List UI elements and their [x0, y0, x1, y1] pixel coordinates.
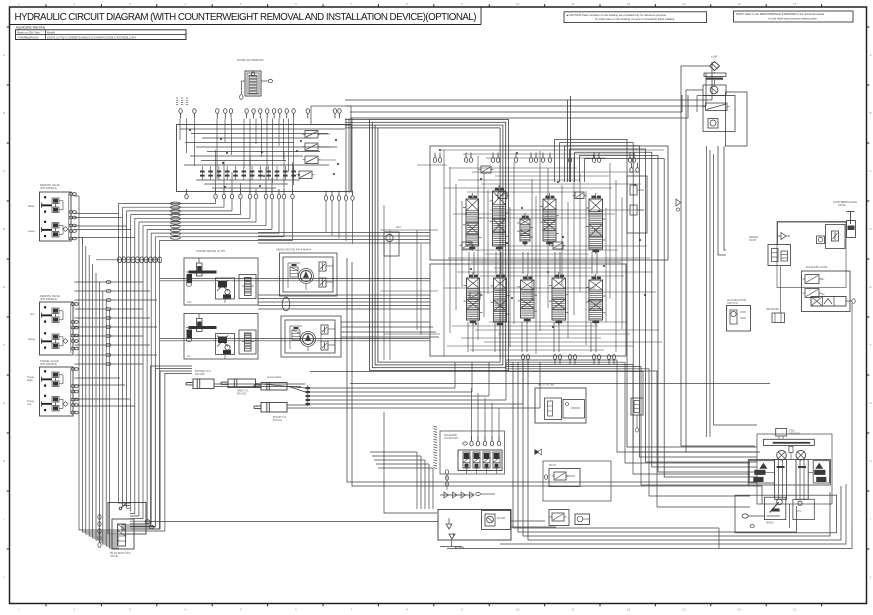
counterweight device label box — [776, 429, 801, 440]
main valve internal piping mesh — [380, 149, 664, 360]
svg-text:VALVE: VALVE — [110, 555, 118, 558]
svg-text:A-L: A-L — [187, 355, 192, 358]
svg-text:I: I — [870, 517, 871, 521]
cw center link — [789, 446, 793, 459]
svg-text:▮ TANK: ▮ TANK — [455, 546, 465, 550]
cw cyl box right — [793, 499, 814, 519]
cooler control valve box — [703, 96, 735, 132]
svg-text:P/N 222: P/N 222 — [237, 392, 247, 396]
long return line B — [350, 383, 770, 385]
svg-text:7: 7 — [351, 2, 353, 6]
pilot manifold ports column — [98, 515, 101, 548]
lower right bus lines — [500, 484, 846, 544]
svg-text:8: 8 — [406, 608, 408, 612]
counterweight control valve box — [826, 222, 847, 249]
svg-text:4: 4 — [184, 2, 186, 6]
svg-text:PILOT FILTER: PILOT FILTER — [538, 384, 554, 387]
svg-text:C: C — [869, 169, 872, 173]
svg-text:To order parts on the drawing,: To order parts on the drawing, be sure t… — [595, 17, 675, 21]
nested frame top right — [568, 96, 571, 182]
pilot filter in tank — [482, 511, 511, 530]
svg-text:10: 10 — [516, 2, 520, 6]
svg-text:F: F — [3, 343, 5, 347]
svg-text:(P/N 4654323): (P/N 4654323) — [40, 362, 57, 366]
svg-text:G: G — [3, 401, 6, 405]
svg-text:SC: SC — [821, 278, 825, 281]
pilot control valve (arm/swing) — [28, 294, 78, 355]
hose exterior valve — [237, 58, 273, 99]
tank drain line — [440, 540, 465, 550]
svg-text:VALVE UNIT: VALVE UNIT — [444, 437, 459, 440]
svg-text:JOINT: JOINT — [749, 239, 757, 242]
svg-text:VALVE: VALVE — [838, 204, 846, 207]
svg-text:C: C — [3, 169, 6, 173]
svg-text:12: 12 — [627, 608, 631, 612]
long return line A — [310, 372, 643, 399]
svg-text:for the relief valve pressure: for the relief valve pressure setting va… — [769, 16, 818, 20]
svg-text:14: 14 — [738, 2, 742, 6]
manifold top ports — [463, 388, 501, 446]
svg-text:11: 11 — [571, 608, 574, 612]
svg-text:Left: Left — [27, 403, 31, 406]
boom cylinder B — [254, 403, 287, 423]
junction box solenoid valves — [297, 131, 337, 179]
cw cylinder left — [775, 460, 787, 500]
svg-text:3: 3 — [129, 608, 131, 612]
air breather diamond — [710, 56, 720, 71]
svg-text:FILTER: FILTER — [497, 517, 505, 520]
counterweight device header bar — [764, 439, 815, 445]
main valve spools lower row — [464, 272, 606, 327]
svg-text:Swing: Swing — [28, 338, 35, 341]
cw cylinder right — [796, 460, 808, 500]
hose wrap marker band — [434, 426, 438, 469]
swing device unit B — [281, 316, 341, 357]
svg-text:1: 1 — [18, 608, 20, 612]
pilot hose bundle center-to-left-down — [118, 199, 292, 529]
svg-text:12: 12 — [627, 2, 631, 6]
svg-text:▲CAUTION: Parts numbers on the: ▲CAUTION: Parts numbers on the drawing a… — [566, 13, 667, 17]
bucket cylinder — [186, 369, 214, 389]
cw winch box — [765, 497, 786, 524]
staircase return bundle — [505, 360, 750, 507]
svg-text:5: 5 — [240, 2, 242, 6]
svg-text:7: 7 — [351, 608, 353, 612]
svg-text:3: 3 — [129, 2, 131, 6]
pilot shut-off lever valve box — [108, 503, 146, 559]
main valve bottom ports — [521, 355, 615, 365]
svg-text:Applicable Machine: Applicable Machine — [16, 26, 46, 30]
svg-text:P/N 333: P/N 333 — [195, 372, 205, 376]
svg-text:G: G — [869, 401, 872, 405]
note box — [734, 11, 854, 22]
svg-text:HOSE (EXTERIOR): HOSE (EXTERIOR) — [237, 58, 264, 62]
svg-text:D: D — [3, 227, 6, 231]
svg-text:Lower: Lower — [28, 230, 35, 233]
cw hand pump handle — [742, 514, 765, 528]
pump delivery verticals — [513, 362, 841, 549]
oil cooler top header — [704, 72, 726, 85]
caution note box — [564, 12, 707, 23]
svg-text:A: A — [3, 53, 5, 57]
vent dashes — [176, 98, 188, 105]
shuttle glyph right of manifold — [535, 449, 542, 455]
travel pilot valve unit B — [184, 314, 258, 360]
main return frame lines right side — [555, 139, 757, 477]
check valve on return line — [676, 199, 681, 211]
svg-text:9: 9 — [461, 608, 463, 612]
counterweight feed line — [749, 222, 847, 245]
svg-text:Right: Right — [27, 379, 33, 382]
svg-text:NOTE: Refer to the PERFORMANCE: NOTE: Refer to the PERFORMANCE STANDARD … — [736, 12, 825, 16]
svg-text:SG: SG — [821, 293, 825, 296]
svg-text:Mach no./SA. Nos.: Mach no./SA. Nos. — [17, 31, 41, 35]
svg-text:H: H — [869, 459, 871, 463]
swivel to solenoid link — [777, 222, 846, 314]
return lines to oil cooler — [345, 62, 712, 118]
main control valve outer ring — [345, 120, 509, 371]
pilot line junction box — [177, 125, 352, 192]
pressure sensor box A — [549, 510, 569, 526]
cw device verticals — [447, 504, 852, 549]
relief valves on upper row — [460, 166, 587, 299]
check valve row — [440, 492, 495, 498]
control valve housing upper — [430, 146, 668, 260]
hose bundle oval marker — [282, 297, 290, 311]
quick coupler ports row A — [179, 109, 310, 119]
travel valve link lines — [75, 378, 136, 406]
solenoid valve manifold — [440, 431, 505, 474]
svg-text:YTA6R8Q/R/Q30: YTA6R8Q/R/Q30 — [17, 35, 39, 39]
boom cylinder A — [254, 375, 287, 390]
svg-text:UNIT P/N: UNIT P/N — [727, 302, 738, 305]
manifold left ports column — [445, 470, 448, 490]
svg-text:● AIR: ● AIR — [711, 56, 717, 59]
svg-text:5: 5 — [240, 608, 242, 612]
junction box connector dash row — [200, 166, 296, 180]
svg-text:Accumulator: Accumulator — [267, 375, 282, 379]
svg-text:11: 11 — [571, 2, 574, 6]
svg-text:WINCH: WINCH — [766, 523, 774, 525]
main valve spools upper row — [463, 185, 606, 254]
travel pilot lines to main valve — [258, 233, 430, 244]
svg-text:13: 13 — [682, 608, 686, 612]
counterweight outer frame — [757, 434, 832, 504]
svg-text:15: 15 — [793, 2, 797, 6]
travel pilot feed into left bundle — [121, 366, 192, 531]
junction box internal horizontal runs — [180, 129, 345, 188]
pilot crossing lines through travel units — [160, 279, 430, 341]
svg-text:ZX270,LC/TQ-C,ZX300P,ZX300LC/A: ZX270,LC/TQ-C,ZX300P,ZX300LC/A,ZX330P,ZX… — [47, 35, 136, 39]
svg-text:13: 13 — [682, 2, 686, 6]
pilot line filter unit — [535, 384, 586, 424]
svg-text:ACC: ACC — [396, 226, 401, 229]
svg-text:(P/N 4654322): (P/N 4654322) — [40, 297, 57, 301]
return verticals mid right — [707, 146, 758, 437]
accumulator filter unit box — [727, 299, 751, 331]
connector chain horizontal — [96, 257, 162, 263]
main frame loop around center — [347, 258, 762, 504]
svg-text:Raise: Raise — [28, 205, 35, 208]
pilot line vertical bundle left — [79, 228, 119, 548]
svg-text:8: 8 — [406, 2, 408, 6]
cw valve assembly left — [749, 461, 774, 483]
svg-text:Arm: Arm — [30, 313, 35, 316]
svg-text:B: B — [869, 111, 871, 115]
travel pilot valve unit A — [184, 249, 258, 305]
cooler fan circle box — [703, 85, 726, 96]
pilot control valve (travel) — [27, 359, 78, 416]
oil cooler bypass frame bottom — [543, 461, 611, 501]
swing device unit A — [276, 248, 337, 297]
svg-text:CYL: CYL — [797, 511, 802, 513]
pilot check valve — [778, 233, 791, 240]
pilot control valve (boom/bucket) — [28, 183, 76, 241]
swing pilot lines to main valve — [258, 295, 430, 309]
tank suction to pump lines — [511, 521, 556, 527]
svg-text:SOLENOID VALVE: SOLENOID VALVE — [806, 266, 828, 269]
svg-text:Model: Model — [47, 31, 55, 35]
cw lower outer box — [735, 495, 837, 533]
pressure sensor box B — [575, 514, 590, 525]
svg-text:HYDRAULIC CIRCUIT DIAGRAM (WIT: HYDRAULIC CIRCUIT DIAGRAM (WITH COUNTERW… — [15, 12, 477, 23]
svg-text:(P/N 4654321): (P/N 4654321) — [40, 186, 57, 190]
cooler bypass check valve — [631, 398, 643, 432]
svg-text:F: F — [870, 343, 872, 347]
svg-text:▼: ▼ — [452, 533, 455, 537]
cooler return verticals — [681, 66, 760, 452]
svg-text:15: 15 — [793, 608, 797, 612]
svg-text:D: D — [869, 227, 872, 231]
swivel joint box — [768, 245, 791, 266]
svg-text:E: E — [869, 285, 871, 289]
main valve top ports — [433, 153, 635, 163]
svg-text:4: 4 — [184, 608, 186, 612]
quick coupler port pair right — [311, 106, 351, 125]
cooler feed verticals — [718, 146, 726, 255]
svg-text:A-R: A-R — [187, 301, 192, 304]
return lines to tank top — [370, 412, 437, 513]
svg-text:6: 6 — [295, 608, 297, 612]
pressure port unit — [766, 308, 785, 323]
cw motor left — [777, 450, 787, 460]
title block — [10, 24, 482, 26]
svg-text:2: 2 — [74, 2, 76, 6]
svg-text:H: H — [3, 459, 5, 463]
hand pump — [833, 201, 857, 238]
svg-text:AIR RELIEF: AIR RELIEF — [766, 308, 780, 311]
svg-text:E: E — [3, 285, 5, 289]
svg-text:1: 1 — [18, 2, 20, 6]
directional control valve horizontal — [811, 297, 855, 525]
cw valve assembly right — [808, 461, 829, 483]
svg-text:J: J — [3, 575, 5, 579]
pilot bundle connector ellipses column — [75, 280, 158, 365]
svg-text:TRAVEL DEVICE (1) P/N: TRAVEL DEVICE (1) P/N — [196, 249, 225, 253]
pilot relief valve box — [544, 464, 580, 487]
svg-text:J: J — [870, 575, 872, 579]
hydraulic tank — [438, 510, 511, 541]
svg-text:I: I — [4, 517, 5, 521]
mid ports row right — [324, 191, 354, 244]
solenoid manifold right — [802, 266, 851, 312]
cooler return port box — [627, 163, 647, 233]
svg-text:A: A — [869, 53, 871, 57]
accumulator on valve block — [384, 226, 401, 256]
svg-text:10: 10 — [516, 608, 520, 612]
cooler outer loop — [697, 92, 747, 146]
svg-text:SWING DEVICE P/N 4444444: SWING DEVICE P/N 4444444 — [276, 248, 312, 252]
svg-text:PILOT: PILOT — [549, 464, 556, 467]
counterweight outer box upper — [748, 460, 830, 485]
svg-text:6: 6 — [295, 2, 297, 6]
shuttle valve small box — [817, 236, 825, 244]
junction box internal vertical lines — [180, 119, 294, 193]
applicable machine table — [16, 26, 187, 40]
center pilot bundle vertical — [346, 118, 352, 193]
svg-text:P/N 111: P/N 111 — [273, 418, 283, 422]
hose connector ellipse column — [170, 202, 180, 239]
swing unit B pilot lines — [341, 322, 439, 337]
svg-text:B: B — [3, 111, 5, 115]
long pilot supply line to pump area — [146, 521, 438, 523]
cw motor right — [796, 450, 806, 460]
control valve housing lower — [430, 264, 626, 356]
junction box bottom ports row — [185, 189, 294, 199]
svg-text:14: 14 — [738, 608, 742, 612]
svg-text:9: 9 — [461, 2, 463, 6]
cylinder feed lines — [214, 362, 540, 408]
cylinder junction column — [306, 385, 311, 406]
arm cylinder — [221, 379, 256, 396]
svg-text:2: 2 — [74, 608, 76, 612]
left cluster link lines — [74, 196, 135, 244]
manifold outlet ellipse — [149, 525, 154, 528]
